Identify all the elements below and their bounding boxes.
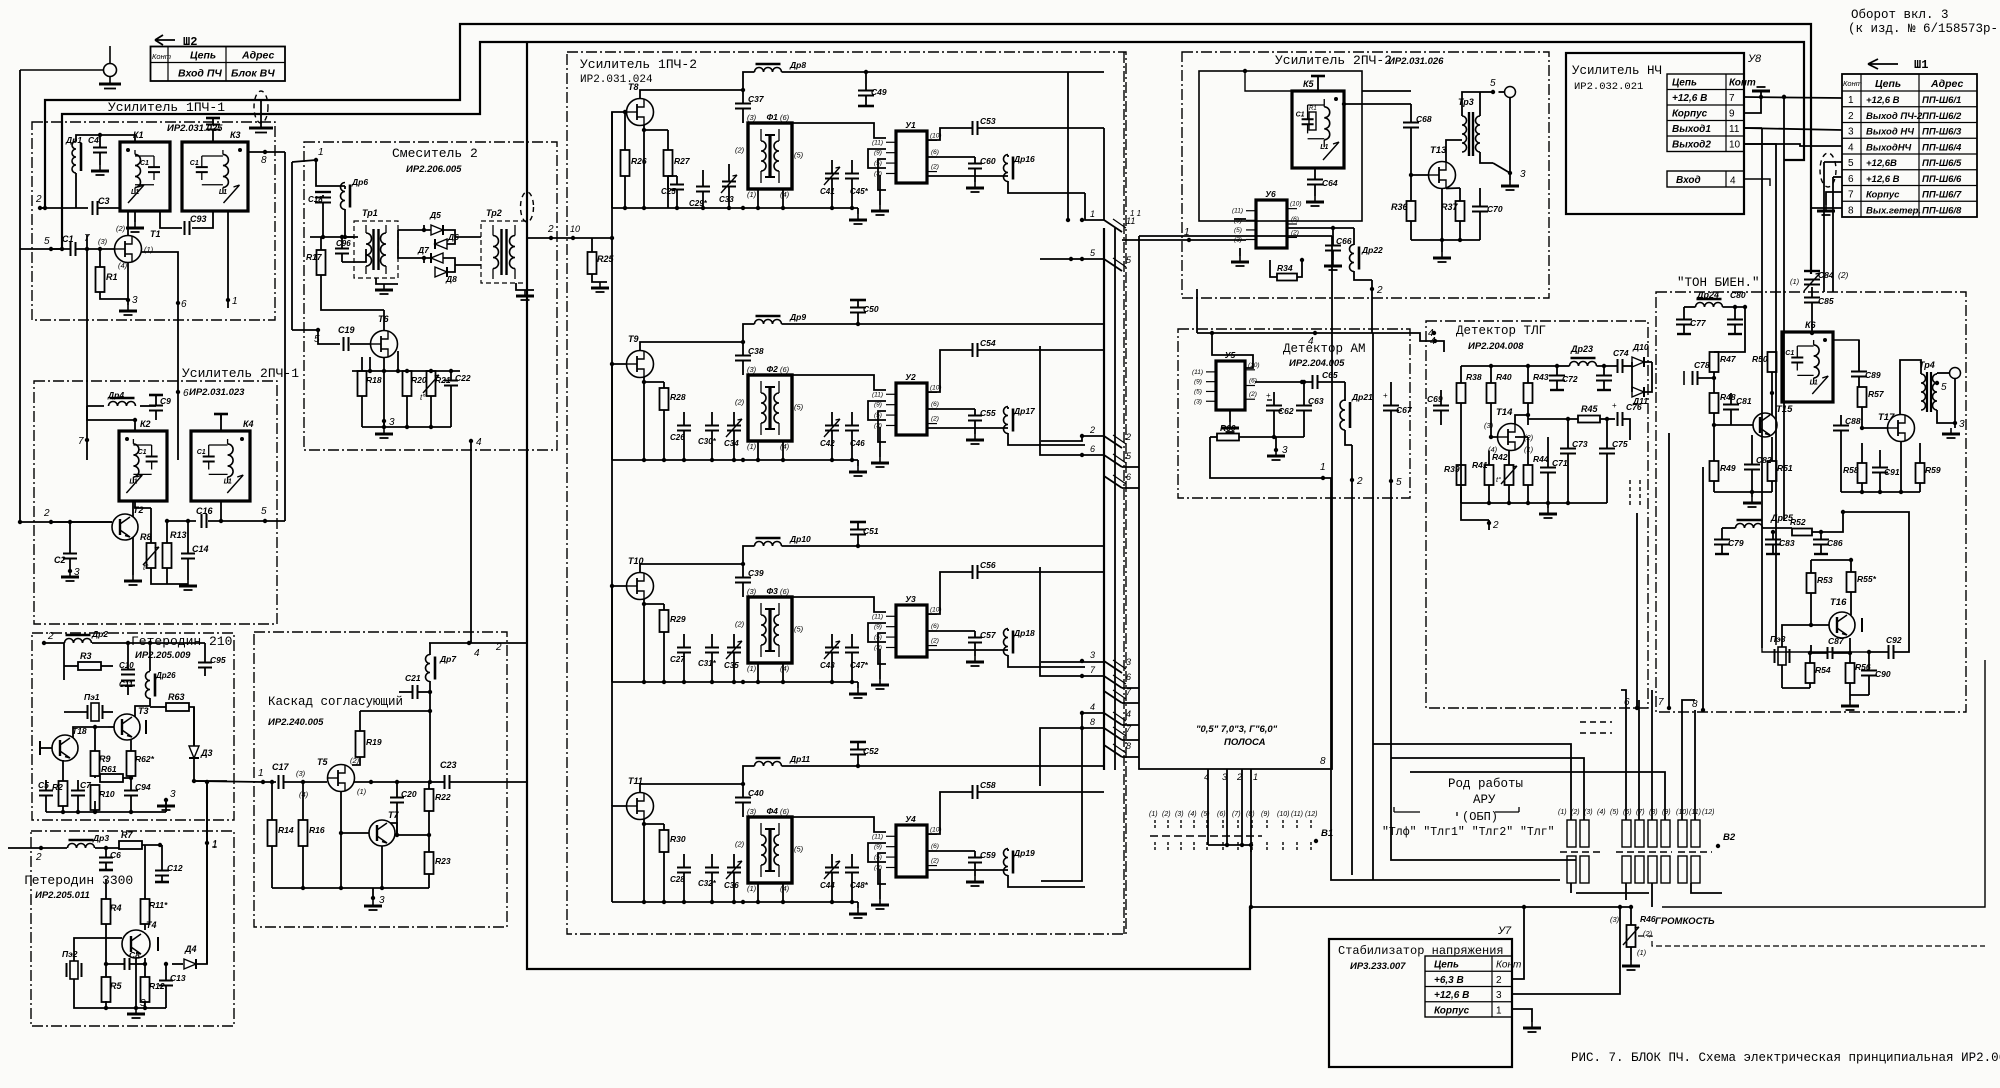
svg-text:2: 2 xyxy=(1496,975,1502,986)
svg-text:C51: C51 xyxy=(863,526,879,536)
wire K5 top cap xyxy=(1317,81,1319,91)
transistor T3 xyxy=(114,714,140,740)
contour K3 xyxy=(182,142,248,211)
svg-text:ИР2.205.011: ИР2.205.011 xyxy=(35,890,90,901)
resistor R7 xyxy=(119,841,142,849)
resistor R29 xyxy=(660,610,669,632)
svg-text:+12,6 В: +12,6 В xyxy=(1866,95,1900,106)
svg-text:(6): (6) xyxy=(1623,809,1632,816)
wire тлг top rail xyxy=(1461,365,1557,367)
block frame Детектор ТЛГ xyxy=(1426,321,1648,708)
svg-text:Др24: Др24 xyxy=(1696,290,1719,300)
capacitor C57 xyxy=(968,638,982,643)
svg-text:Т1: Т1 xyxy=(150,229,161,239)
wire гет210 out xyxy=(194,780,227,782)
svg-text:Д5: Д5 xyxy=(429,210,441,220)
wire Тр3 secondary xyxy=(1480,91,1493,93)
svg-text:(2): (2) xyxy=(735,146,745,155)
choke Др24 xyxy=(1696,303,1723,308)
wire T16 bottom xyxy=(1782,687,1810,689)
svg-text:C40: C40 xyxy=(748,788,764,798)
svg-text:ПОЛОСА: ПОЛОСА xyxy=(1224,737,1266,748)
svg-text:Т16: Т16 xyxy=(1830,597,1847,608)
wire T7 collector xyxy=(390,823,397,835)
svg-text:(6): (6) xyxy=(1291,216,1299,223)
connector pins group1 xyxy=(1104,220,1122,232)
capacitor C79 xyxy=(1714,540,1730,545)
resistor R30 xyxy=(660,830,669,852)
svg-text:3: 3 xyxy=(1090,650,1095,660)
capacitor C90 xyxy=(1861,671,1877,676)
svg-text:Др4: Др4 xyxy=(107,390,124,400)
svg-text:C31*: C31* xyxy=(698,659,717,668)
svg-text:(2): (2) xyxy=(735,840,745,849)
svg-text:С18: С18 xyxy=(308,195,323,204)
svg-text:2: 2 xyxy=(495,642,502,653)
wire Тр4 in xyxy=(1900,360,1921,414)
svg-text:Конт: Конт xyxy=(152,52,171,61)
svg-text:R34: R34 xyxy=(1277,263,1293,273)
svg-text:C41: C41 xyxy=(820,187,835,196)
wire T1 out right xyxy=(142,252,179,303)
bracket АРУ xyxy=(1394,807,1519,816)
wire Т9 source xyxy=(643,377,645,460)
resistor R52 xyxy=(1792,529,1812,536)
svg-text:C16: C16 xyxy=(196,506,214,516)
capacitor C11 xyxy=(121,681,135,686)
svg-text:C8: C8 xyxy=(129,950,140,960)
svg-text:ИР2.031.024: ИР2.031.024 xyxy=(580,74,653,86)
resistor R19 xyxy=(356,731,365,757)
svg-text:3: 3 xyxy=(1496,990,1502,1001)
svg-text:ПП-Ш6/7: ПП-Ш6/7 xyxy=(1922,190,1962,201)
contour K4 xyxy=(191,431,250,501)
wire ФФ3 bottom pins xyxy=(757,663,759,682)
svg-text:R8: R8 xyxy=(140,532,152,542)
block frame ТОН БИЕН xyxy=(1656,292,1966,712)
svg-text:1: 1 xyxy=(258,768,264,779)
svg-text:(1): (1) xyxy=(1637,948,1647,957)
svg-text:C4: C4 xyxy=(88,135,99,145)
svg-text:6: 6 xyxy=(1848,174,1854,185)
wire stage4 out xyxy=(1082,712,1104,714)
wire connector strip v2 xyxy=(1114,228,1116,770)
svg-text:R43: R43 xyxy=(1533,372,1549,382)
resistor R61 xyxy=(100,774,123,782)
svg-text:R55*: R55* xyxy=(1857,574,1877,584)
wire Т9 bottom rail xyxy=(612,459,790,461)
wire У4 gnd xyxy=(879,869,881,899)
svg-text:"ТОН БИЕН.": "ТОН БИЕН." xyxy=(1677,276,1760,290)
svg-text:R44: R44 xyxy=(1533,454,1549,464)
diode Д8 xyxy=(435,267,447,277)
node 5 смеситель xyxy=(316,328,320,332)
resistor R17 xyxy=(317,250,326,275)
capacitor C68 xyxy=(1403,123,1419,128)
wire T6 row xyxy=(369,357,371,371)
wire У3 left pins xyxy=(792,597,886,612)
resistor R13 xyxy=(163,543,172,568)
svg-text:(6): (6) xyxy=(780,365,790,374)
svg-text:ИР2.206.005: ИР2.206.005 xyxy=(406,164,462,175)
svg-text:1: 1 xyxy=(232,296,238,307)
svg-text:2: 2 xyxy=(1125,432,1131,442)
svg-text:(6): (6) xyxy=(931,149,939,156)
svg-text:(3): (3) xyxy=(1194,398,1202,405)
svg-text:У3: У3 xyxy=(905,594,916,604)
node 2 гет3300 xyxy=(39,846,43,850)
wire У5 top xyxy=(1212,333,1253,368)
block 2ПЧ-2 inner box xyxy=(1199,71,1362,221)
capacitor C5 xyxy=(39,791,53,796)
svg-text:C3: C3 xyxy=(98,196,110,206)
svg-text:(6): (6) xyxy=(1249,378,1257,385)
transistor T4 xyxy=(122,930,150,958)
wire Т11 source xyxy=(643,819,645,902)
svg-text:Конт: Конт xyxy=(1496,960,1521,971)
wire Т8 gate xyxy=(612,112,627,208)
node 6 label2 xyxy=(176,390,180,394)
svg-text:C43: C43 xyxy=(820,661,835,670)
svg-text:2: 2 xyxy=(35,194,42,205)
wire Т8 bottom rail xyxy=(612,207,790,209)
resistor R46 громкость xyxy=(1627,925,1636,947)
capacitor C30* xyxy=(705,426,719,431)
resistor R56 xyxy=(1846,663,1855,683)
svg-text:Ш1: Ш1 xyxy=(1914,58,1928,72)
svg-text:(8): (8) xyxy=(1649,809,1658,816)
svg-text:(12): (12) xyxy=(1702,809,1714,816)
wire т16 r rail xyxy=(1811,559,1851,561)
svg-text:C91: C91 xyxy=(1884,467,1900,477)
capacitor C80 xyxy=(1727,320,1743,325)
block Стабилизатор box xyxy=(1329,939,1512,1067)
transistor T14 xyxy=(1498,424,1525,451)
svg-text:Д10: Д10 xyxy=(1632,342,1649,352)
wire НЧ вход xyxy=(1744,179,1770,186)
svg-text:У6: У6 xyxy=(1265,189,1276,199)
choke Др9 xyxy=(755,320,782,325)
choke Др3 xyxy=(68,844,95,849)
svg-text:Усилитель 2ПЧ-2: Усилитель 2ПЧ-2 xyxy=(1275,53,1392,68)
svg-text:У1: У1 xyxy=(905,120,916,130)
svg-text:2: 2 xyxy=(1492,520,1499,531)
svg-text:1: 1 xyxy=(212,840,218,851)
capacitor C53 xyxy=(973,121,978,135)
svg-text:(4): (4) xyxy=(780,190,790,199)
shield marker top xyxy=(254,91,268,123)
svg-text:(ОБП): (ОБП) xyxy=(1462,810,1498,824)
capacitor C55 xyxy=(968,416,982,421)
wire T13 drain xyxy=(1446,140,1462,162)
svg-text:C86: C86 xyxy=(1827,538,1843,548)
choke Др25 xyxy=(1736,524,1763,529)
resistor R51 xyxy=(1768,461,1777,481)
capacitor C94 xyxy=(124,791,138,796)
svg-text:(5): (5) xyxy=(1201,811,1210,818)
resistor R4 xyxy=(102,899,111,924)
wire K5 top feed xyxy=(1245,71,1318,91)
wire тлг dash feeds xyxy=(1580,721,1612,723)
wire node6 down xyxy=(177,303,179,392)
capacitor C78 xyxy=(1693,371,1698,385)
svg-text:2: 2 xyxy=(43,508,50,519)
svg-text:(3): (3) xyxy=(296,769,306,778)
crystal Пэ1 xyxy=(91,703,99,721)
capacitor C88 xyxy=(1833,426,1849,431)
svg-text:C36: C36 xyxy=(724,881,739,890)
svg-text:ПП-Ш6/8: ПП-Ш6/8 xyxy=(1922,205,1962,216)
capacitor C35 var xyxy=(727,648,741,653)
svg-text:1: 1 xyxy=(1320,462,1326,473)
svg-text:R41: R41 xyxy=(1472,460,1488,470)
svg-text:C81: C81 xyxy=(1736,396,1752,406)
wire input to stages xyxy=(592,237,612,239)
capacitor C42 xyxy=(825,426,839,431)
svg-text:t°: t° xyxy=(143,563,149,572)
svg-text:C39: C39 xyxy=(748,568,764,578)
svg-text:ИР2.031.023: ИР2.031.023 xyxy=(189,387,245,398)
capacitor C54 (2ПЧ-2) xyxy=(1307,180,1323,185)
wire ФФ4 bottom pins xyxy=(757,883,759,902)
capacitor C43 xyxy=(825,648,839,653)
transformer Тр1 xyxy=(354,221,398,278)
wire Т8 rail2 xyxy=(790,207,858,209)
svg-text:(10): (10) xyxy=(1290,201,1302,208)
wire У1 left pins xyxy=(792,123,886,138)
filter Ф2 xyxy=(748,375,792,441)
svg-text:Др1: Др1 xyxy=(65,135,82,145)
svg-text:Ф1: Ф1 xyxy=(766,112,778,122)
svg-text:1 1: 1 1 xyxy=(1130,209,1141,218)
svg-text:C12: C12 xyxy=(167,863,183,873)
resistor R37 xyxy=(1456,201,1465,221)
svg-text:C22: C22 xyxy=(455,373,471,383)
svg-text:Адрес: Адрес xyxy=(241,50,274,62)
svg-text:R60: R60 xyxy=(1220,423,1236,433)
svg-text:R16: R16 xyxy=(309,825,325,835)
IC У6 xyxy=(1256,200,1287,248)
svg-text:Выход НЧ: Выход НЧ xyxy=(1866,127,1914,138)
diode Д11 xyxy=(1632,387,1644,397)
choke Др6 xyxy=(341,183,346,210)
svg-text:(1): (1) xyxy=(747,664,757,673)
svg-text:C38: C38 xyxy=(748,346,764,356)
capacitor C82 xyxy=(1744,465,1760,470)
svg-text:R13: R13 xyxy=(170,530,187,540)
svg-text:Др10: Др10 xyxy=(789,534,811,544)
svg-text:R18: R18 xyxy=(366,375,382,385)
svg-text:Усилитель 2ПЧ-1: Усилитель 2ПЧ-1 xyxy=(182,366,299,381)
svg-text:11: 11 xyxy=(1729,124,1740,135)
node 1 (2ПЧ-2) xyxy=(1187,238,1191,242)
svg-text:Др9: Др9 xyxy=(789,312,806,322)
svg-text:3: 3 xyxy=(1282,445,1288,456)
svg-text:C59: C59 xyxy=(980,850,996,860)
resistor R38 xyxy=(1457,383,1466,403)
svg-text:C84: C84 xyxy=(1818,270,1834,280)
svg-text:ИР2.204.005: ИР2.204.005 xyxy=(1289,358,1345,369)
antenna input terminal xyxy=(104,64,117,77)
resistor R44 xyxy=(1524,465,1533,485)
capacitor C13 xyxy=(159,981,173,986)
choke Др19 xyxy=(1004,849,1009,876)
connector Ш2 arrow xyxy=(155,35,175,45)
svg-text:Др8: Др8 xyxy=(789,60,806,70)
svg-text:R22: R22 xyxy=(435,792,451,802)
resistor R57 xyxy=(1858,387,1867,407)
svg-text:8: 8 xyxy=(1090,717,1095,727)
resistor R21 xyxy=(427,371,436,396)
capacitor C21 xyxy=(413,685,418,699)
svg-text:C76: C76 xyxy=(1626,402,1642,412)
svg-text:C29*: C29* xyxy=(689,199,708,208)
block Усилитель НЧ box xyxy=(1566,53,1744,214)
node 7 label xyxy=(85,438,89,442)
capacitor C38 xyxy=(735,356,751,361)
svg-text:3: 3 xyxy=(1520,169,1526,180)
svg-text:Ф3: Ф3 xyxy=(766,586,778,596)
svg-text:(5): (5) xyxy=(794,150,804,159)
node 5 ам xyxy=(1389,479,1393,483)
capacitor C19 xyxy=(344,337,349,351)
svg-text:Д4: Д4 xyxy=(184,944,197,954)
svg-text:R53: R53 xyxy=(1817,575,1833,585)
wire stage2 out xyxy=(1082,435,1104,437)
block frame Гетеродин 210 xyxy=(32,633,234,820)
svg-text:10: 10 xyxy=(1729,140,1741,151)
svg-text:7: 7 xyxy=(1658,697,1664,708)
svg-text:C19: C19 xyxy=(338,325,355,335)
svg-text:8: 8 xyxy=(261,155,267,166)
svg-text:C63: C63 xyxy=(1308,396,1324,406)
capacitor C56 xyxy=(973,565,978,579)
svg-text:Т15: Т15 xyxy=(1776,404,1793,415)
svg-text:2: 2 xyxy=(35,852,42,863)
svg-text:Корпус: Корпус xyxy=(1866,190,1900,201)
svg-text:8: 8 xyxy=(1848,205,1854,216)
wire T14 drain xyxy=(1515,415,1528,424)
svg-text:Каскад согласующий: Каскад согласующий xyxy=(268,695,403,709)
svg-text:Т17: Т17 xyxy=(1878,412,1895,423)
svg-text:ИР2.205.009: ИР2.205.009 xyxy=(135,650,191,661)
svg-text:Смеситель 2: Смеситель 2 xyxy=(392,146,478,161)
wire У3 gnd xyxy=(879,649,881,679)
wire 678 verticals xyxy=(1636,513,1638,708)
svg-text:5: 5 xyxy=(261,506,267,517)
capacitor C70 xyxy=(1472,207,1488,212)
svg-text:ПП-Ш6/3: ПП-Ш6/3 xyxy=(1922,127,1962,138)
svg-text:C65: C65 xyxy=(1322,370,1338,380)
svg-text:(5): (5) xyxy=(794,844,804,853)
svg-text:Выход2: Выход2 xyxy=(1672,140,1711,151)
svg-text:C83: C83 xyxy=(1779,538,1795,548)
capacitor C27 xyxy=(677,648,691,653)
node 1 каскад xyxy=(261,780,265,784)
switch B2 contacts xyxy=(1567,820,1576,847)
capacitor C26 xyxy=(677,426,691,431)
svg-text:(2): (2) xyxy=(116,224,126,233)
wire T15 bottom xyxy=(1714,491,1772,493)
svg-text:(1): (1) xyxy=(357,787,367,796)
svg-text:C96: C96 xyxy=(336,239,351,248)
svg-text:C55: C55 xyxy=(980,408,996,418)
wire K2 bottom xyxy=(135,501,151,508)
wire stage feed vert xyxy=(611,112,613,364)
svg-text:4: 4 xyxy=(1848,142,1854,153)
svg-text:C62: C62 xyxy=(1278,406,1294,416)
svg-text:C26: C26 xyxy=(670,433,685,442)
svg-text:C1: C1 xyxy=(1296,111,1305,118)
svg-text:Ф2: Ф2 xyxy=(766,364,778,374)
capacitor C84 xyxy=(1804,280,1820,285)
svg-text:Т3: Т3 xyxy=(138,706,149,716)
node 5 тр4 xyxy=(1935,381,1939,385)
block frame Детектор АМ xyxy=(1178,329,1410,498)
svg-text:C21: C21 xyxy=(405,673,421,683)
transistor T13 xyxy=(1429,162,1456,189)
svg-text:R2: R2 xyxy=(52,782,63,792)
svg-text:+12,6В: +12,6В xyxy=(1866,158,1897,169)
resistor R20 xyxy=(403,371,412,396)
resistor R8 xyxy=(147,543,156,568)
svg-text:C73: C73 xyxy=(1572,439,1588,449)
resistor R28 xyxy=(660,388,669,410)
ground стабилизатор xyxy=(1512,1009,1532,1022)
svg-text:Т7: Т7 xyxy=(388,810,399,820)
svg-text:R30: R30 xyxy=(670,834,686,844)
wire Т10 drain xyxy=(640,564,743,573)
svg-text:(1): (1) xyxy=(1790,277,1800,286)
svg-text:Др26: Др26 xyxy=(155,671,176,680)
wire Т9 drain xyxy=(640,342,743,351)
svg-text:(3): (3) xyxy=(747,807,757,816)
svg-text:У8: У8 xyxy=(1747,53,1762,65)
IC У1 xyxy=(896,131,927,183)
capacitor C96 xyxy=(335,249,349,254)
svg-text:C17: C17 xyxy=(272,762,290,772)
svg-text:8: 8 xyxy=(1320,756,1326,767)
resistor R11* xyxy=(141,899,150,924)
svg-text:Гетеродин 3300: Гетеродин 3300 xyxy=(24,873,133,888)
svg-text:C33: C33 xyxy=(719,195,734,204)
block frame Каскад согласующий xyxy=(254,632,507,927)
capacitor C77 xyxy=(1676,320,1692,325)
choke Др8 xyxy=(755,68,782,73)
wire diode mid xyxy=(423,225,425,230)
svg-text:C71: C71 xyxy=(1552,458,1568,468)
svg-text:C23: C23 xyxy=(440,760,457,770)
resistor R1 xyxy=(99,249,101,267)
svg-text:2: 2 xyxy=(1848,111,1854,122)
svg-text:t°: t° xyxy=(1496,475,1501,484)
resistor R40 xyxy=(1487,383,1496,403)
svg-text:Цепь: Цепь xyxy=(190,50,216,62)
svg-text:Д3: Д3 xyxy=(200,748,213,758)
wire тлг bottom rail xyxy=(1461,502,1607,504)
capacitor C89 xyxy=(1851,372,1867,377)
capacitor C9 xyxy=(149,406,163,411)
wire смеситель node xyxy=(310,236,358,238)
capacitor C41 xyxy=(825,174,839,179)
capacitor C17 xyxy=(279,775,284,789)
svg-text:(2): (2) xyxy=(931,164,939,171)
svg-text:(1): (1) xyxy=(1149,811,1158,818)
resistor R27 xyxy=(664,150,673,176)
wire Тр1 gnd xyxy=(376,278,398,284)
capacitor C32* xyxy=(705,868,719,873)
svg-text:+12,6 В: +12,6 В xyxy=(1434,990,1469,1001)
